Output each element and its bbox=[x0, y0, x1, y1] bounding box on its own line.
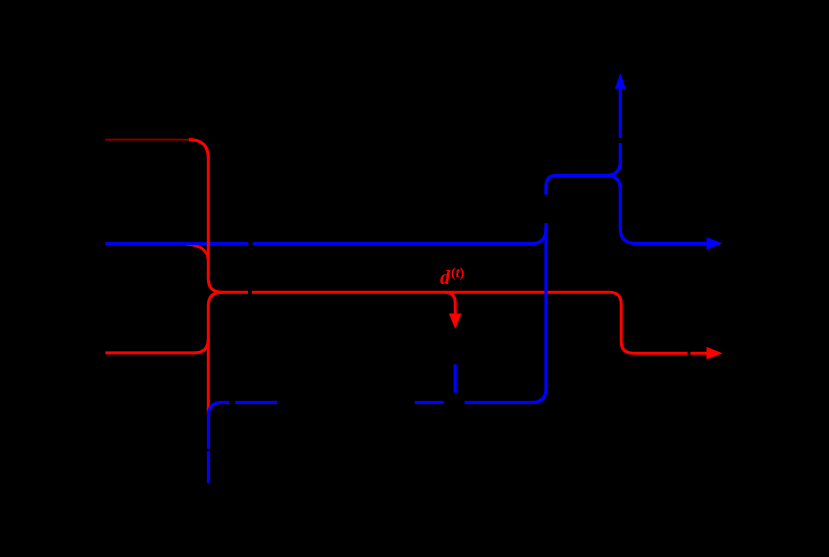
svg-text:d: d bbox=[440, 267, 451, 289]
svg-text:(t): (t) bbox=[451, 266, 465, 281]
